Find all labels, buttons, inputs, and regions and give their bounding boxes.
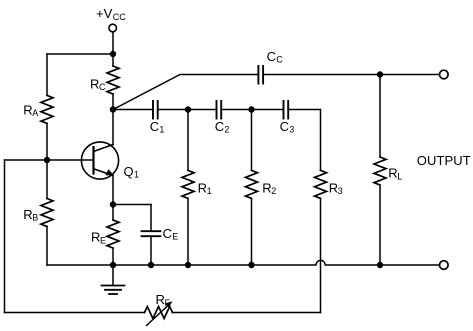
resistor R1 <box>182 110 194 266</box>
svg-text:C: C <box>99 82 106 92</box>
label RB <box>23 207 38 223</box>
svg-text:+V: +V <box>96 6 113 21</box>
wire CC to output top <box>263 74 439 76</box>
label CE <box>163 226 179 242</box>
wire feedback bottom left <box>5 312 145 314</box>
resistor RB <box>41 160 53 265</box>
resistor RL <box>374 75 386 266</box>
wire collector lead <box>112 110 114 145</box>
label OUTPUT <box>417 153 471 168</box>
svg-text:R: R <box>262 180 271 195</box>
svg-text:C: C <box>150 119 159 134</box>
svg-text:E: E <box>100 235 106 245</box>
capacitor CC <box>258 66 263 84</box>
svg-text:C: C <box>215 119 224 134</box>
svg-text:R: R <box>91 230 100 245</box>
resistor RF <box>145 301 173 325</box>
label CC <box>267 49 284 65</box>
junction rail RE <box>110 262 116 268</box>
wire base node to feedback line <box>5 159 48 161</box>
wire emitter lead <box>112 176 114 205</box>
resistor RA <box>41 95 53 123</box>
label +VCC <box>96 6 126 22</box>
wire node A to C2 <box>188 109 217 111</box>
svg-text:R: R <box>23 102 32 117</box>
svg-text:R: R <box>329 180 338 195</box>
svg-text:R: R <box>23 207 32 222</box>
svg-text:2: 2 <box>271 186 276 196</box>
capacitor C1 <box>153 101 158 119</box>
node +VCC terminal <box>109 24 117 32</box>
capacitor CE <box>142 231 161 236</box>
wire emitter node to CE <box>113 204 151 206</box>
label R2 <box>262 180 276 196</box>
svg-text:CC: CC <box>113 12 126 22</box>
wire feedback left vertical <box>4 160 6 313</box>
wire node B to C3 <box>252 109 284 111</box>
svg-text:3: 3 <box>289 125 294 135</box>
wire ground rail <box>47 260 439 265</box>
transistor Q1 <box>81 142 118 179</box>
junction node B <box>248 106 254 112</box>
ground <box>102 265 125 294</box>
wire collector diagonal to CC <box>113 75 258 110</box>
resistor R3 <box>315 170 327 312</box>
svg-text:1: 1 <box>134 170 139 180</box>
svg-text:R: R <box>90 77 99 92</box>
capacitor C3 <box>284 101 289 119</box>
wire RF to R3 branch <box>173 312 321 314</box>
capacitor C2 <box>217 101 222 119</box>
svg-text:F: F <box>165 298 171 308</box>
resistor R2 <box>246 110 258 266</box>
svg-text:C: C <box>280 119 289 134</box>
wire RC to collector node <box>112 94 114 110</box>
label C2 <box>215 119 230 135</box>
svg-text:Q: Q <box>124 164 134 179</box>
svg-text:L: L <box>397 171 402 181</box>
wire C3 to R3 corner <box>288 110 320 171</box>
wire CE top lead <box>150 205 152 232</box>
svg-text:E: E <box>172 232 178 242</box>
wire collector node to C1 <box>113 109 153 111</box>
svg-text:1: 1 <box>207 186 212 196</box>
label R1 <box>198 180 212 196</box>
junction collector node <box>110 106 116 112</box>
wire VCC stem <box>112 32 114 66</box>
svg-text:R: R <box>198 180 207 195</box>
svg-text:A: A <box>32 108 38 118</box>
svg-text:2: 2 <box>224 125 229 135</box>
resistor RE <box>107 220 119 248</box>
wire CE bottom lead <box>150 236 152 265</box>
label Q1 <box>124 164 140 180</box>
junction rail CE <box>148 262 154 268</box>
svg-text:R: R <box>388 166 397 181</box>
wire C2 to node B <box>221 109 251 111</box>
label RA <box>23 102 38 118</box>
label RL <box>388 166 402 182</box>
junction rail R1 <box>185 262 191 268</box>
wire RE top lead <box>112 205 114 221</box>
label C3 <box>280 119 295 135</box>
label RE <box>91 230 106 246</box>
resistor RC <box>107 66 119 94</box>
svg-text:B: B <box>32 213 38 223</box>
svg-text:C: C <box>163 226 172 241</box>
junction base node <box>44 157 50 163</box>
junction CC-RL node <box>377 71 383 77</box>
label C1 <box>150 119 165 135</box>
node output top terminal <box>440 70 449 79</box>
svg-text:C: C <box>276 55 283 65</box>
junction emitter node <box>110 201 116 207</box>
junction rail R2 <box>248 262 254 268</box>
junction node A <box>185 106 191 112</box>
wire RE bottom lead <box>112 248 114 265</box>
wire base node to transistor base <box>47 159 93 161</box>
label RC <box>90 77 106 93</box>
wire RA bottom lead <box>46 124 48 161</box>
label RF <box>156 292 171 308</box>
wire VCC to RA <box>47 53 113 55</box>
svg-text:R: R <box>156 292 165 307</box>
wire C1 to node A <box>158 109 188 111</box>
label R3 <box>329 180 343 196</box>
svg-text:1: 1 <box>159 125 164 135</box>
junction VCC node <box>110 51 116 57</box>
svg-text:C: C <box>267 49 276 64</box>
svg-text:OUTPUT: OUTPUT <box>417 153 471 168</box>
node output bottom terminal <box>440 261 449 270</box>
junction rail RL <box>377 262 383 268</box>
wire RA top lead <box>46 54 48 95</box>
svg-text:3: 3 <box>338 186 343 196</box>
